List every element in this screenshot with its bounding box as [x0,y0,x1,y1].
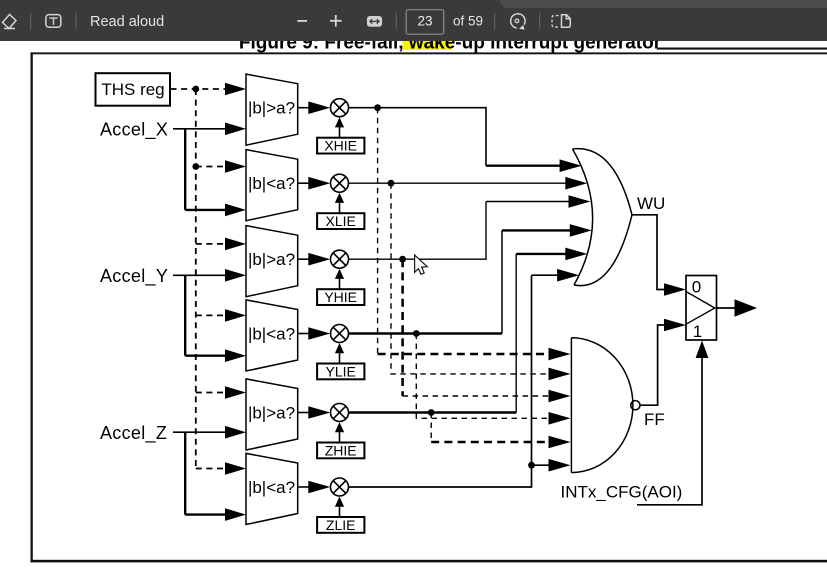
svg-text:ZHIE: ZHIE [325,443,357,459]
WU OR gate input arrowheads [557,159,592,281]
THS dashed net: horizontal to comparator 1 [171,88,228,90]
page view icon [552,15,570,27]
svg-text:|b|<a?: |b|<a? [248,174,295,193]
THS dashed branch row3 [196,243,227,245]
multiplexer triangle [686,292,715,325]
ZHIE up arrow [339,432,341,443]
comparator 4 |b|<a? [246,300,298,371]
svg-text:of 59: of 59 [453,14,483,29]
page number box [406,10,444,35]
wire WU output to mux input 0 [632,215,665,290]
YLIE enable box [317,364,364,380]
YLIE up arrow [339,353,341,364]
junction dot ZLIE vertical [528,462,535,469]
eraser icon [3,15,17,29]
wire Accel_Y to comparator 3 [173,274,227,276]
THS dashed net: vertical trunk [195,89,197,469]
wire FF output to mux input 1 [640,325,665,405]
svg-text:Accel_Y: Accel_Y [100,266,168,287]
svg-text:INTx_CFG(AOI): INTx_CFG(AOI) [561,483,683,502]
svg-text:YLIE: YLIE [326,364,356,380]
separator [75,13,76,29]
separator [30,13,31,29]
dashed wire row3 to FF input3 [401,259,404,396]
wire Accel_Z to comparator 5 [173,431,227,433]
figure frame top border [31,52,827,54]
THS dashed branch row5 [196,392,227,394]
multiplexer box [686,276,717,341]
ZLIE up arrow [339,506,341,517]
junction dot row5 [428,409,435,416]
wire Accel_X to comparator 2 [185,209,227,211]
svg-text:ZLIE: ZLIE [326,517,356,533]
input arrowheads comparators (lower signal inputs) [225,123,246,521]
separator [539,13,540,29]
AND gate (circle-X) row3 [331,250,349,268]
dashed wire row1 to FF input1 [377,108,379,354]
wire Accel_Y branch down [184,275,186,355]
comparator 2 |b|<a? [246,150,298,221]
svg-text:WU: WU [637,194,665,213]
junction dot row2 [388,180,395,187]
wire row1 to WU input1 [349,108,486,166]
separator [396,13,397,29]
comparator 1 |b|>a? [246,74,298,145]
XHIE enable box [317,138,364,154]
pdf viewer toolbar [0,0,827,41]
fit to width icon [367,16,382,27]
YHIE up arrow [339,279,341,290]
svg-text:FF: FF [644,410,665,429]
input arrowheads comparators (upper threshold inputs) [225,83,246,475]
zoom in plus [330,15,342,27]
svg-text:|b|<a?: |b|<a? [248,325,295,344]
comparator 3 |b|>a? [246,226,298,297]
comparator 6 |b|<a? [246,453,298,524]
svg-text:XHIE: XHIE [324,138,357,154]
junction dot row1 [374,104,381,111]
add text icon [46,15,61,28]
svg-text:1: 1 [693,322,702,341]
svg-text:XLIE: XLIE [326,213,356,229]
figure frame left border [31,52,33,562]
AND gate (circle-X) row2 [331,174,349,192]
XLIE enable box [317,213,364,229]
zoom out minus [297,20,307,22]
svg-text:|b|>a?: |b|>a? [248,250,295,269]
wire Accel_X branch down [184,129,186,210]
comparator to AND arrows [298,101,331,493]
wire Accel_Z to comparator 6 [185,513,227,515]
wire Accel_X to comparator 1 [173,128,227,130]
mux output wire and arrow [717,307,736,309]
AND gate (circle-X) row5 [331,404,349,422]
wire Accel_Y to comparator 4 [185,355,227,357]
junction dot THS row1 [192,86,199,93]
YHIE enable box [317,289,364,305]
FF NAND gate input arrowheads [549,348,571,472]
search highlight on word wake [403,37,452,50]
svg-text:Accel_Z: Accel_Z [100,423,167,444]
svg-text:Accel_X: Accel_X [100,119,168,140]
wire row5 to WU input5 [349,411,517,413]
wire ZLIE junction to FF input6 [532,464,551,466]
separator [494,13,495,29]
browser tab strip remnant [500,0,827,8]
THS dashed branch row4 [196,314,227,316]
select wire from INTx_CFG to mux [637,358,702,505]
figure frame bottom border [31,560,827,563]
dashed wire row4 to FF input4 [416,334,550,419]
dashed wire row5 to FF input5 [430,413,432,443]
wire Accel_Z branch down [184,432,186,514]
wire row6 to WU input6 [349,275,559,487]
AND gate (circle-X) row1 [331,99,349,117]
XLIE up arrow [339,203,341,214]
comparator 5 |b|>a? [246,379,298,450]
svg-text:Read aloud: Read aloud [90,14,164,30]
OR gate WU [573,149,633,286]
toolbar icons svg [0,0,827,41]
junction dot THS row2 [192,163,199,170]
wire row3 to WU input3 [349,202,570,260]
rotate icon [511,14,525,28]
svg-text:|b|>a?: |b|>a? [248,404,295,423]
svg-text:|b|<a?: |b|<a? [248,478,295,497]
AND gate (circle-X) row4 [331,325,349,343]
ZHIE enable box [317,443,364,459]
wire row2 to WU input2 [349,182,567,184]
title row bottom border line [657,48,827,50]
svg-text:0: 0 [692,277,701,296]
AND gate (circle-X) row6 [331,478,349,496]
XHIE up arrow [339,127,341,138]
ZLIE enable box [317,517,364,533]
wire row4 to WU input4 [349,332,502,334]
THS reg box [96,73,171,106]
junction dot row3 [399,256,406,263]
THS dashed branch row2 [196,166,227,168]
NAND gate FF [571,338,640,473]
svg-text:YHIE: YHIE [324,289,357,305]
mouse cursor [415,255,428,274]
THS dashed branch row6 [196,468,227,470]
junction dot row4 [413,330,420,337]
dashed wire row2 to FF input2 [391,183,550,374]
svg-text:THS reg: THS reg [101,80,164,99]
svg-text:23: 23 [417,14,432,29]
svg-text:|b|>a?: |b|>a? [248,99,295,118]
